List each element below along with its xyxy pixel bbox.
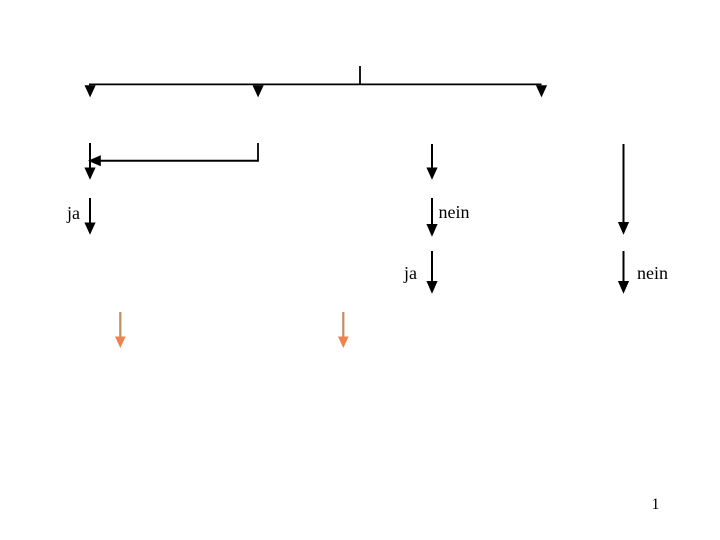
arrowhead branch left — [85, 85, 96, 97]
arrow C middle column row1 — [426, 144, 437, 180]
arrowhead elbow left — [88, 155, 101, 166]
svg-text:nein: nein — [439, 202, 470, 222]
wire elbow riser — [257, 143, 259, 162]
arrowhead branch middle — [253, 85, 264, 97]
arrow A left column row1 — [84, 143, 95, 180]
arrow G right column row3 — [618, 251, 629, 294]
arrowhead branch right — [536, 85, 547, 97]
wire top stub from root — [359, 66, 361, 85]
arrow E middle column row3 — [426, 251, 437, 294]
wire top horizontal bus — [89, 83, 542, 85]
wire elbow horizontal — [99, 160, 259, 162]
svg-text:ja: ja — [66, 203, 80, 223]
arrow B left column row2 — [84, 198, 95, 235]
orange arrow left — [115, 312, 126, 348]
svg-text:ja: ja — [403, 263, 417, 283]
arrow D middle column row2 — [426, 198, 437, 237]
svg-text:1: 1 — [652, 496, 660, 513]
orange arrow middle — [338, 312, 349, 348]
svg-text:nein: nein — [637, 263, 668, 283]
arrow F right column long — [618, 144, 629, 235]
